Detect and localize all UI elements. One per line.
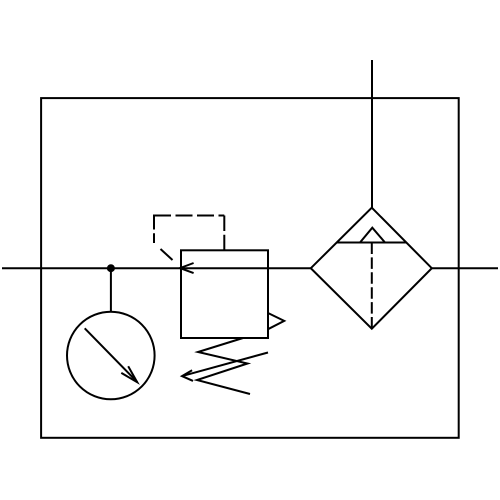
gauge G1 needle arrowhead: [121, 366, 137, 382]
gauge G1 body (circle): [67, 312, 155, 400]
regulator R1 relief port triangle: [268, 313, 284, 329]
wire: gauge branch: [110, 268, 112, 312]
pilot line: diagonal dash segment: [161, 249, 173, 260]
pilot line: dashed top edge: [154, 215, 224, 217]
pilot line: dashed left edge: [153, 215, 155, 244]
filter F1 separator chord: [337, 242, 407, 244]
gauge G1 needle shaft: [85, 328, 138, 382]
regulator R1 adjustment arrowhead: [182, 370, 193, 381]
node: junction to gauge branch: [107, 264, 115, 272]
wire: inlet riser to filter: [371, 60, 373, 208]
filter F1 body (diamond): [311, 208, 432, 329]
filter F1 float triangle: [360, 228, 385, 243]
pilot line: dashed right edge: [223, 216, 225, 251]
regulator R1 adjustment arrow shaft: [183, 353, 268, 376]
filter F1 drain dashed line: [371, 243, 373, 329]
regulator R1 spring (zigzag): [197, 338, 250, 394]
regulator R1 flow arrowhead on main line: [180, 263, 194, 273]
enclosure box (FRL unit boundary): [41, 98, 459, 438]
wire: main flow line, left segment: [2, 267, 311, 269]
regulator R1 body (square): [181, 250, 268, 338]
wire: main flow line, right segment: [432, 267, 498, 269]
